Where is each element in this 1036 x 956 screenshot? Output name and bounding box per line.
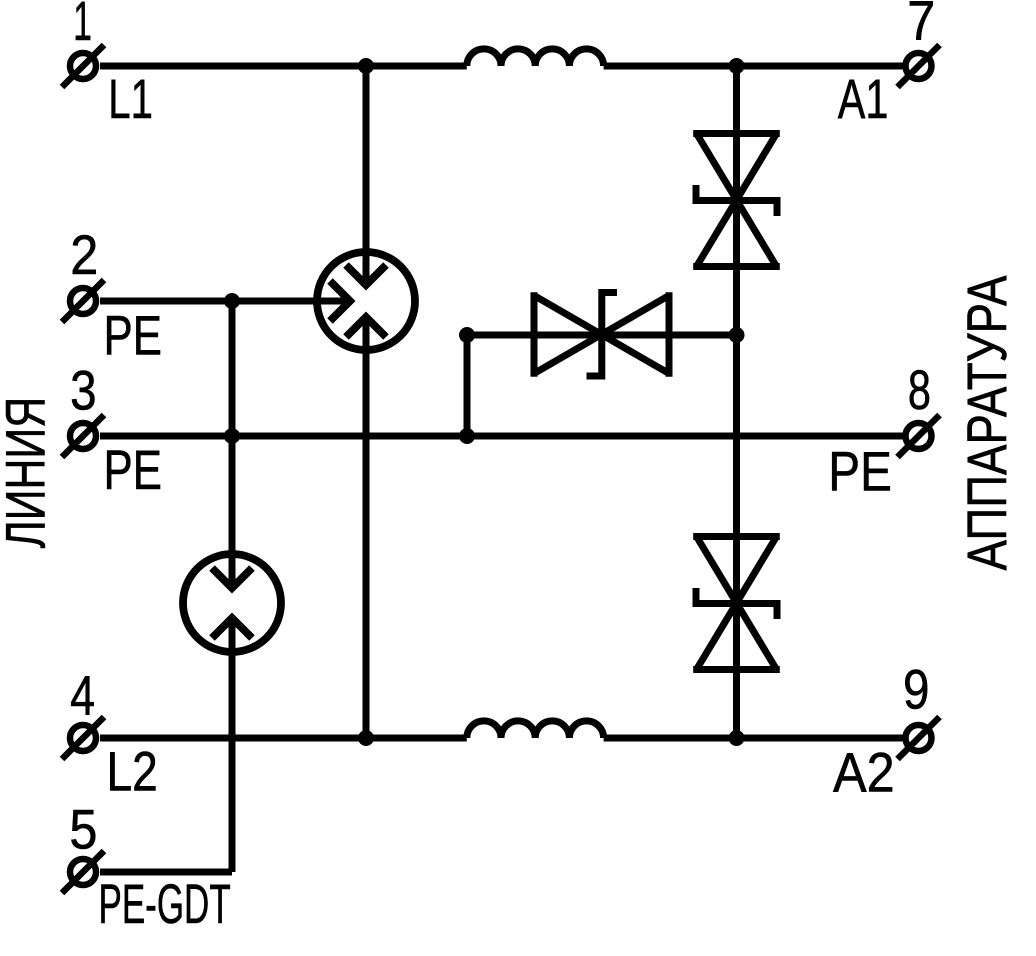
suppressor diode middle (bidirectional TVS, horizontal) <box>534 292 669 377</box>
terminal 8 <box>898 415 940 457</box>
node junction riser corner <box>459 327 475 343</box>
svg-text:5: 5 <box>69 799 97 861</box>
svg-text:PE: PE <box>828 441 892 503</box>
label L1 <box>108 68 153 130</box>
svg-text:9: 9 <box>903 659 929 721</box>
wire terminal 5 horizontal <box>100 869 232 876</box>
inductor bottom (L2 line choke) <box>467 721 604 738</box>
svg-text:3: 3 <box>70 360 96 422</box>
wire vertical from GDT to bottom wire <box>363 317 370 738</box>
label L2 <box>107 740 158 802</box>
label 1 (terminal 1 number) <box>73 0 92 52</box>
wire PE-GDT bus upper segment <box>229 301 236 588</box>
node junction bottom-right <box>729 730 745 746</box>
terminal 7 <box>898 45 940 87</box>
wire L2 bottom right segment <box>604 735 903 742</box>
wire right vertical bus <box>733 66 740 738</box>
label 3 (terminal 3 number) <box>70 360 96 422</box>
node junction riser on PE wire <box>459 428 475 444</box>
label A1 <box>838 68 889 131</box>
svg-text:L1: L1 <box>108 68 153 130</box>
node junction suppressor wire right <box>729 327 745 343</box>
gas discharge tube lower (PE-GDT, 2-electrode) <box>183 554 281 652</box>
terminal 3 <box>62 415 104 457</box>
label A2 <box>833 742 895 804</box>
terminal 1 <box>62 45 104 87</box>
svg-text:ЛИНИЯ: ЛИНИЯ <box>0 397 57 549</box>
suppressor diode bottom right (bidirectional TVS) <box>693 537 780 670</box>
side label АППАРАТУРА (equipment) <box>955 276 1017 571</box>
svg-text:7: 7 <box>907 0 935 52</box>
label PE (terminal 3) <box>104 439 162 501</box>
svg-text:A2: A2 <box>833 742 895 804</box>
svg-text:4: 4 <box>70 664 95 727</box>
svg-text:PE: PE <box>104 439 162 501</box>
wire PE (terminal 3 to terminal 8) <box>100 433 903 440</box>
node junction PE bus left <box>224 428 240 444</box>
label PE (terminal 8) <box>828 441 892 503</box>
wire riser from PE wire <box>464 335 471 436</box>
terminal 9 <box>898 717 940 759</box>
svg-text:L2: L2 <box>107 740 158 802</box>
svg-text:A1: A1 <box>838 68 889 131</box>
suppressor diode top right (bidirectional TVS) <box>693 134 780 267</box>
terminal 4 <box>62 717 104 759</box>
wire L1 top left segment <box>100 63 467 70</box>
svg-text:2: 2 <box>70 225 98 287</box>
label PE-GDT <box>99 873 231 935</box>
node junction bottom-left <box>358 730 374 746</box>
label 2 (terminal 2 number) <box>70 225 98 287</box>
label PE (terminal 2) <box>104 304 162 366</box>
wire terminal 2 to GDT arrow <box>100 298 350 305</box>
svg-text:АППАРАТУРА: АППАРАТУРА <box>955 276 1017 571</box>
label 4 (terminal 4 number) <box>70 664 95 727</box>
svg-text:8: 8 <box>908 359 931 422</box>
gas discharge tube upper (3-electrode) <box>317 252 415 350</box>
wire L1 top right segment <box>604 63 903 70</box>
terminal 2 <box>62 280 104 322</box>
node junction terminal-2 wire <box>224 293 240 309</box>
svg-text:PE-GDT: PE-GDT <box>99 873 231 935</box>
wire PE-GDT bus lower segment <box>229 618 236 872</box>
node junction top-left <box>358 58 374 74</box>
side label ЛИНИЯ (line) <box>0 397 57 549</box>
svg-text:PE: PE <box>104 304 162 366</box>
terminal 5 <box>62 851 104 893</box>
wire suppressor branch horizontal <box>467 332 737 339</box>
svg-text:1: 1 <box>73 0 92 52</box>
wire vertical from top junction into GDT <box>363 66 370 285</box>
node junction top-right <box>729 58 745 74</box>
label 5 (terminal 5 number) <box>69 799 97 861</box>
label 8 (terminal 8 number) <box>908 359 931 422</box>
inductor top (L1 line choke) <box>467 49 604 66</box>
label 7 (terminal 7 number) <box>907 0 935 52</box>
label 9 (terminal 9 number) <box>903 659 929 721</box>
wire L2 bottom left segment <box>100 735 467 742</box>
